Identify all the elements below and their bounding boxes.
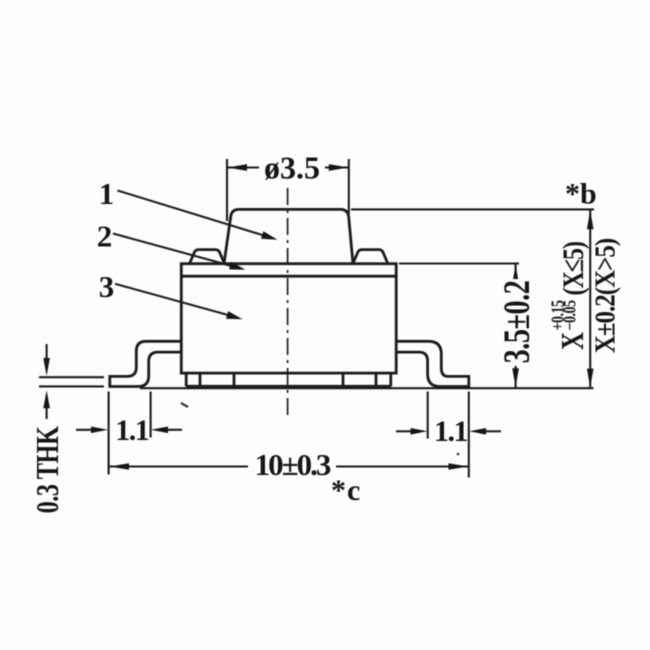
dimension 3.5±0.2: text (rotated) [503, 279, 530, 366]
dimension 0.3 THK: text (rotated) [31, 426, 66, 513]
leader 1 [118, 191, 269, 237]
tolerance text X±0.2(X>5) rotated [589, 239, 621, 353]
scan speck 2 [457, 453, 460, 456]
centerline (vertical dash-dot axis) [287, 188, 289, 419]
svg-text:1.1: 1.1 [115, 414, 149, 447]
left cover bump [190, 250, 225, 264]
dimension 1.1 right [396, 392, 501, 439]
svg-text:3.5±0.2: 3.5±0.2 [497, 281, 537, 364]
right gull-wing lead [396, 341, 469, 386]
svg-text:*b: *b [565, 178, 597, 211]
cover plate lower edge line [181, 275, 396, 278]
seating plane line extending right [140, 387, 594, 389]
svg-text:−0.05: −0.05 [561, 300, 580, 331]
svg-text:2: 2 [97, 219, 113, 254]
svg-text:1.1: 1.1 [434, 415, 468, 448]
leader 2 [113, 234, 237, 268]
svg-text:X: X [556, 331, 590, 350]
dimension X height: extension + line [351, 209, 594, 388]
body outline (cover + base, parts 2,3) [181, 264, 396, 373]
svg-text:(X≤5): (X≤5) [556, 242, 589, 296]
dimension ø3.5: extension lines [227, 159, 349, 221]
dimension 0.3 THK: extension lines [39, 344, 104, 419]
dimension 1.1 left [76, 392, 182, 438]
svg-text:ø3.5: ø3.5 [264, 150, 320, 186]
right cover bump [353, 250, 388, 264]
dimension ø3.5: arrowheads [228, 164, 248, 171]
svg-text:3: 3 [99, 269, 115, 304]
tolerance text X+0.15/-0.05 (X<=5) rotated [549, 242, 590, 350]
svg-text:10±0.3: 10±0.3 [255, 447, 331, 482]
dimension ø3.5: text [259, 153, 325, 181]
leader 3 [115, 284, 234, 317]
dimension 10±0.3: extension lines [109, 392, 469, 478]
svg-text:0.3 THK: 0.3 THK [31, 426, 66, 513]
dimension 3.5±0.2: extension + line [399, 264, 519, 388]
svg-text:1: 1 [99, 176, 115, 211]
actuator button (part 1) [224, 209, 353, 263]
bottom standoff strip [186, 373, 391, 386]
left gull-wing lead [110, 341, 182, 386]
scan speck 1 [181, 403, 188, 407]
svg-text:X±0.2(X>5): X±0.2(X>5) [589, 239, 621, 353]
